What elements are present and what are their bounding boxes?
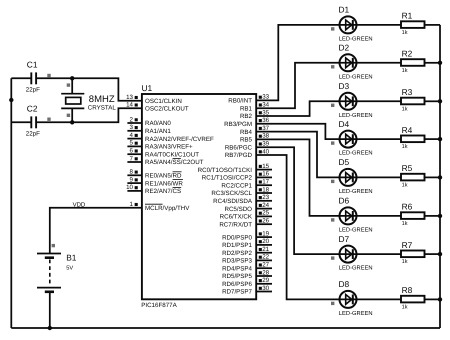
pin 29 (RD6-PSP6): [222, 277, 272, 288]
svg-text:RE1/AN6/WR: RE1/AN6/WR: [145, 180, 183, 187]
wire: C2 left lead: [11, 121, 31, 123]
pin 27 (RD4-PSP4): [222, 262, 272, 273]
pin 30 (RD7-PSP7): [222, 285, 272, 296]
svg-text:RB3/PGM: RB3/PGM: [224, 121, 252, 128]
svg-text:C2: C2: [27, 103, 38, 113]
svg-text:CRYSTAL: CRYSTAL: [88, 105, 117, 112]
resistor R7 (1k): [401, 240, 425, 265]
svg-text:13: 13: [126, 94, 133, 101]
svg-text:R7: R7: [402, 240, 413, 250]
capacitor C1: [26, 59, 51, 93]
wire: right rail: [439, 25, 441, 328]
junction: R4 at right rail: [438, 137, 442, 141]
battery B1 5V: [37, 244, 77, 292]
svg-text:R4: R4: [402, 125, 413, 135]
wire: pin 40 RB7 to LED D8 and resistor R8: [256, 155, 401, 299]
svg-text:RD2/PSP2: RD2/PSP2: [222, 250, 252, 257]
svg-text:29: 29: [262, 277, 269, 284]
LED D5 (LED-GREEN): [331, 157, 373, 195]
svg-text:1k: 1k: [402, 258, 408, 265]
svg-text:14: 14: [126, 102, 133, 109]
svg-text:R1: R1: [402, 11, 413, 21]
svg-text:1k: 1k: [402, 67, 408, 74]
svg-text:5V: 5V: [66, 266, 73, 272]
svg-text:16: 16: [262, 171, 269, 178]
svg-text:RA1/AN1: RA1/AN1: [145, 128, 171, 135]
svg-text:RD7/PSP7: RD7/PSP7: [222, 289, 252, 296]
junction: battery to ground rail: [48, 326, 52, 330]
junction: R8 at right rail: [438, 297, 442, 301]
wire: battery negative to ground rail: [49, 292, 51, 328]
svg-text:28: 28: [262, 269, 269, 276]
pin 4 (RA2-AN2-VREF--CVREF): [127, 132, 214, 143]
pin 34 (RB1): [240, 102, 270, 113]
pin 8 (RE0-AN5-RD): [127, 169, 182, 180]
junction: R7 at right rail: [438, 252, 442, 256]
svg-text:25: 25: [262, 210, 269, 217]
svg-text:D1: D1: [339, 5, 350, 15]
svg-text:RD0/PSP0: RD0/PSP0: [222, 234, 252, 241]
pin 9 (RE1-AN6-WR): [127, 176, 183, 187]
svg-text:LED-GREEN: LED-GREEN: [339, 150, 373, 157]
svg-text:RE0/AN5/RD: RE0/AN5/RD: [145, 173, 182, 180]
junction: R3 at right rail: [438, 99, 442, 103]
svg-text:22: 22: [262, 254, 269, 261]
LED D6 (LED-GREEN): [331, 196, 373, 234]
svg-text:RB1: RB1: [240, 105, 253, 112]
svg-text:RB2: RB2: [240, 113, 253, 120]
svg-text:RC1/T1OSI/CCP2: RC1/T1OSI/CCP2: [202, 175, 253, 182]
svg-text:22pF: 22pF: [26, 131, 40, 138]
pin 10 (RE2-AN7-CS): [126, 184, 181, 195]
svg-text:OSC1/CLKIN: OSC1/CLKIN: [145, 98, 182, 105]
svg-text:8MHZ: 8MHZ: [89, 94, 115, 105]
wire: R4 to right rail: [425, 138, 441, 140]
svg-text:1k: 1k: [402, 105, 408, 112]
svg-text:RE2/AN7/CS: RE2/AN7/CS: [145, 188, 181, 195]
wire: R2 to right rail: [425, 62, 441, 64]
pin 19 (RD0-PSP0): [222, 230, 272, 241]
svg-text:1k: 1k: [402, 303, 408, 310]
svg-text:D7: D7: [339, 234, 350, 244]
resistor R3 (1k): [401, 87, 425, 112]
LED D7 (LED-GREEN): [331, 234, 373, 272]
svg-text:D2: D2: [339, 43, 350, 53]
svg-text:23: 23: [262, 194, 269, 201]
wire: ground rail (bottom): [11, 327, 440, 329]
wire: left bus from C1/C2 down to ground rail: [10, 78, 12, 328]
svg-text:LED-GREEN: LED-GREEN: [339, 73, 373, 80]
svg-text:6: 6: [130, 148, 134, 155]
svg-text:21: 21: [262, 246, 269, 253]
pin 20 (RD1-PSP1): [222, 238, 272, 249]
pin 1 (MCLR-Vpp-THV): [130, 201, 191, 212]
pin 22 (RD3-PSP3): [222, 254, 272, 265]
svg-text:1k: 1k: [402, 29, 408, 36]
svg-text:30: 30: [262, 285, 269, 292]
svg-text:R5: R5: [402, 163, 413, 173]
pin 36 (RB3-PGM): [224, 117, 270, 128]
wire: pin 35 RB2 to LED D3 and resistor R3: [256, 101, 401, 116]
resistor R4 (1k): [401, 125, 425, 150]
junction: R5 at right rail: [438, 175, 442, 179]
wire: pin 36 RB3 to LED D4 and resistor R4: [256, 124, 401, 139]
wire: pin 33 RB0 to LED D1 and resistor R1: [256, 25, 401, 101]
crystal X1 8MHZ: [61, 78, 116, 122]
wire: C2 right lead to OSC2 node: [36, 108, 142, 122]
pin 5 (RA3-AN3-VREF+): [127, 140, 193, 151]
svg-text:26: 26: [262, 218, 269, 225]
pin 23 (RC4-SDI-SDA): [213, 194, 272, 205]
svg-text:RC0/T1OSO/T1CKI: RC0/T1OSO/T1CKI: [198, 167, 253, 174]
svg-text:RD6/PSP6: RD6/PSP6: [222, 281, 252, 288]
svg-text:LED-GREEN: LED-GREEN: [339, 35, 373, 42]
pin 28 (RD5-PSP5): [222, 269, 272, 280]
svg-text:LED-GREEN: LED-GREEN: [339, 112, 373, 119]
svg-text:8: 8: [130, 169, 134, 176]
wire: R3 to right rail: [425, 100, 441, 102]
svg-text:5: 5: [130, 140, 134, 147]
svg-text:R8: R8: [402, 285, 413, 295]
svg-text:RC5/SDO: RC5/SDO: [224, 206, 252, 213]
pin 3 (RA1-AN1): [127, 124, 171, 135]
LED D3 (LED-GREEN): [331, 81, 373, 119]
svg-text:U1: U1: [142, 83, 153, 93]
pin 15 (RC0-T1OSO-T1CKI): [198, 163, 272, 174]
microcontroller U1 PIC16F877A body: [142, 94, 256, 299]
svg-text:D5: D5: [339, 157, 350, 167]
svg-text:D3: D3: [339, 81, 350, 91]
pin 18 (RC3-SCK-SCL): [211, 186, 272, 197]
svg-text:20: 20: [262, 238, 269, 245]
svg-text:R3: R3: [402, 87, 413, 97]
pin 13 (OSC1-CLKIN): [126, 94, 182, 105]
pin 17 (RC2-CCP1): [221, 179, 272, 190]
svg-text:1k: 1k: [402, 220, 408, 227]
pin 16 (RC1-T1OSI-CCP2): [202, 171, 272, 182]
svg-text:RD5/PSP5: RD5/PSP5: [222, 273, 252, 280]
svg-text:LED-GREEN: LED-GREEN: [339, 265, 373, 272]
svg-text:15: 15: [262, 163, 269, 170]
wire: C1 left lead: [11, 77, 31, 79]
pin 7 (RA5-AN4-SS-C2OUT): [127, 155, 203, 166]
svg-text:RC6/TX/CK: RC6/TX/CK: [220, 214, 253, 221]
wire: VDD to MCLR pin 1: [50, 208, 142, 254]
svg-text:OSC2/CLKOUT: OSC2/CLKOUT: [145, 105, 189, 112]
svg-text:RA2/AN2/VREF-/CVREF: RA2/AN2/VREF-/CVREF: [145, 136, 214, 143]
wire: pin 37 RB4 to LED D5 and resistor R5: [256, 132, 401, 178]
svg-text:RC7/RX/DT: RC7/RX/DT: [219, 221, 252, 228]
pin 35 (RB2): [240, 109, 270, 120]
svg-text:VDD: VDD: [73, 201, 86, 208]
svg-text:D4: D4: [339, 119, 350, 129]
svg-text:LED-GREEN: LED-GREEN: [339, 188, 373, 195]
svg-text:1: 1: [130, 201, 134, 208]
svg-text:10: 10: [126, 184, 133, 191]
wire: C1 right lead to OSC1 node: [36, 78, 142, 100]
pin 38 (RB5): [240, 133, 270, 144]
resistor R8 (1k): [401, 285, 425, 310]
svg-text:1k: 1k: [402, 143, 408, 150]
svg-text:17: 17: [262, 179, 269, 186]
LED D4 (LED-GREEN): [331, 119, 373, 157]
svg-text:RB6/PGC: RB6/PGC: [225, 144, 253, 151]
wire: R5 to right rail: [425, 176, 441, 178]
svg-text:4: 4: [130, 132, 134, 139]
pin 40 (RB7-PGD): [225, 148, 270, 159]
wire: pin 38 RB5 to LED D6 and resistor R6: [256, 139, 401, 216]
resistor R6 (1k): [401, 202, 425, 227]
svg-text:24: 24: [262, 202, 269, 209]
svg-text:RC4/SDI/SDA: RC4/SDI/SDA: [213, 198, 253, 205]
svg-text:22pF: 22pF: [26, 87, 40, 94]
wire: R8 to right rail: [425, 298, 441, 300]
pin 25 (RC6-TX-CK): [220, 210, 272, 221]
capacitor C2: [26, 103, 51, 137]
wire: R1 to right rail: [425, 24, 441, 26]
pin 6 (RA4-T0CKI-C1OUT): [127, 148, 199, 159]
svg-text:LED-GREEN: LED-GREEN: [339, 310, 373, 317]
resistor R1 (1k): [401, 11, 425, 36]
svg-text:PIC16F877A: PIC16F877A: [141, 302, 177, 309]
wire: pin 39 RB6 to LED D7 and resistor R7: [256, 147, 401, 254]
pin 21 (RD2-PSP2): [222, 246, 272, 257]
pin 2 (RA0-AN0): [127, 116, 171, 127]
junction: crystal top node: [70, 76, 74, 80]
svg-text:RA3/AN3/VREF+: RA3/AN3/VREF+: [145, 144, 193, 151]
junction on left bus: [9, 98, 13, 102]
LED D1 (LED-GREEN): [331, 5, 373, 43]
svg-text:RB4: RB4: [240, 129, 253, 136]
svg-text:RB7/PGD: RB7/PGD: [225, 152, 253, 159]
svg-text:1k: 1k: [402, 181, 408, 188]
svg-text:7: 7: [130, 155, 134, 162]
svg-text:2: 2: [130, 116, 134, 123]
svg-text:R2: R2: [402, 49, 413, 59]
resistor R2 (1k): [401, 49, 425, 74]
svg-text:LED-GREEN: LED-GREEN: [339, 226, 373, 233]
svg-text:3: 3: [130, 124, 134, 131]
svg-text:RB5: RB5: [240, 137, 253, 144]
svg-text:R6: R6: [402, 202, 413, 212]
pin 37 (RB4): [240, 125, 270, 136]
svg-text:C1: C1: [27, 59, 38, 69]
LED D8 (LED-GREEN): [331, 279, 373, 317]
svg-text:B1: B1: [66, 252, 77, 262]
svg-text:D6: D6: [339, 196, 350, 206]
svg-text:9: 9: [130, 176, 134, 183]
wire: pin 34 RB1 to LED D2 and resistor R2: [256, 63, 401, 108]
junction: R2 at right rail: [438, 61, 442, 65]
junction: crystal bottom node: [70, 120, 74, 124]
pin 14 (OSC2-CLKOUT): [126, 102, 189, 113]
svg-text:27: 27: [262, 262, 269, 269]
svg-text:RA5/AN4/SS/C2OUT: RA5/AN4/SS/C2OUT: [145, 159, 204, 166]
svg-text:18: 18: [262, 186, 269, 193]
LED D2 (LED-GREEN): [331, 43, 373, 81]
pin 26 (RC7-RX-DT): [219, 218, 272, 229]
svg-text:D8: D8: [339, 279, 350, 289]
resistor R5 (1k): [401, 163, 425, 188]
svg-text:MCLR/Vpp/THV: MCLR/Vpp/THV: [145, 205, 190, 212]
pin 39 (RB6-PGC): [225, 141, 270, 152]
svg-text:RD1/PSP1: RD1/PSP1: [222, 242, 252, 249]
svg-text:RD4/PSP4: RD4/PSP4: [222, 265, 252, 272]
svg-text:19: 19: [262, 230, 269, 237]
svg-text:RD3/PSP3: RD3/PSP3: [222, 258, 252, 265]
svg-text:RA4/T0CKI/C1OUT: RA4/T0CKI/C1OUT: [145, 151, 199, 158]
junction: R6 at right rail: [438, 214, 442, 218]
pin 33 (RB0-INT): [228, 94, 269, 105]
svg-text:RB0/INT: RB0/INT: [228, 98, 252, 105]
svg-text:RA0/AN0: RA0/AN0: [145, 120, 171, 127]
svg-text:RC3/SCK/SCL: RC3/SCK/SCL: [211, 190, 252, 197]
pin 24 (RC5-SDO): [224, 202, 272, 213]
svg-text:RC2/CCP1: RC2/CCP1: [221, 182, 252, 189]
wire: R7 to right rail: [425, 253, 441, 255]
wire: R6 to right rail: [425, 215, 441, 217]
